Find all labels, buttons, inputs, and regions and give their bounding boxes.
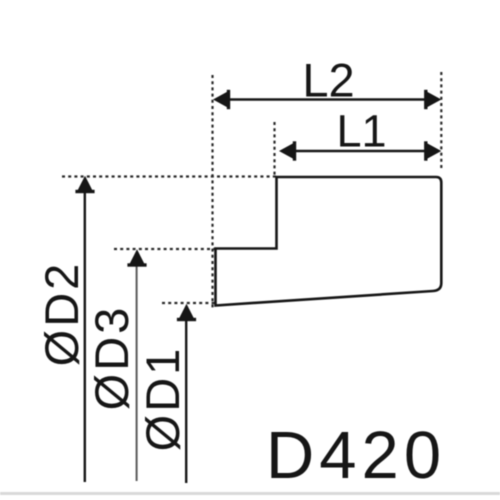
svg-text:L2: L2: [302, 54, 354, 107]
svg-text:D420: D420: [266, 418, 446, 493]
svg-text:ØD1: ØD1: [136, 346, 189, 452]
svg-text:ØD2: ØD2: [35, 261, 88, 367]
svg-text:L1: L1: [336, 106, 386, 157]
svg-text:ØD3: ØD3: [85, 305, 138, 411]
